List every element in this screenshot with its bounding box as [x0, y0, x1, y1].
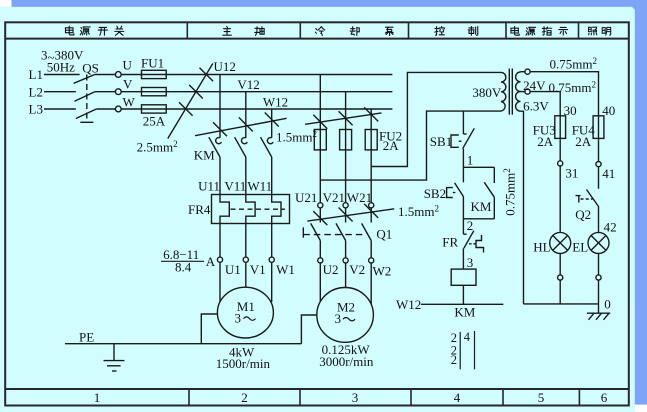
wire U21 to Q1 [319, 208, 321, 223]
wire 24V top to FU4 [530, 72, 598, 141]
FR4 linkage dashed [231, 208, 286, 210]
tick on L3 [179, 102, 193, 116]
fuse FU1 pole 2 [142, 88, 167, 96]
QS switch blade pole 2 [75, 92, 95, 102]
svg-text:0.75mm2: 0.75mm2 [549, 80, 596, 96]
tick on W12 [265, 113, 279, 127]
header bottom line [5, 38, 629, 40]
header Chinese labels drawn as stroke glyphs [65, 26, 610, 35]
svg-text:1: 1 [467, 153, 474, 168]
svg-text:31: 31 [565, 166, 578, 181]
svg-text:3: 3 [352, 390, 359, 405]
SB1 fixed hook [463, 133, 466, 135]
FR4 heater element 2 [246, 195, 255, 224]
terminal V circle [115, 89, 121, 95]
QS handle bar [80, 121, 93, 123]
svg-text:42: 42 [604, 220, 617, 235]
svg-text:KM: KM [194, 147, 215, 162]
wire coil to W12 [462, 285, 464, 304]
冷 [315, 27, 324, 36]
svg-text:2A: 2A [537, 134, 554, 149]
关 [115, 26, 124, 35]
transformer secondary winding [516, 72, 521, 111]
svg-text:QS: QS [82, 61, 99, 76]
terminal W2 circle [369, 258, 374, 263]
footer top line [5, 388, 629, 390]
svg-text:W: W [123, 95, 136, 110]
wire FR4 to W1 [271, 224, 273, 258]
cooling pump drop W21 [370, 109, 372, 150]
fuse FU1 pole 1 [142, 70, 167, 78]
SB2 blade [455, 183, 464, 197]
header dividers [187, 22, 579, 405]
KM pole 1 blade [209, 137, 220, 157]
tilde M2 [343, 318, 355, 321]
KM pole 3 blade [261, 137, 272, 157]
terminal U21 circle [318, 203, 323, 208]
KM aux stub [493, 167, 495, 183]
cable marker 1.5mm2 slash (pump motor) [307, 209, 394, 221]
明 [602, 27, 611, 35]
thermal relay FR4 box [212, 195, 290, 224]
wire count tally [451, 330, 471, 367]
wire L1 bus [166, 74, 392, 76]
motor M2 circle [317, 288, 374, 343]
svg-text:4: 4 [454, 390, 461, 405]
QS linkage dashed [86, 75, 88, 122]
wire L3 bus [166, 108, 392, 110]
开 [98, 27, 107, 35]
tick on U12 [213, 122, 227, 136]
cooling pump drop U21 [319, 75, 321, 150]
SB2 button cap [447, 188, 453, 198]
switch Q1 blade 2 [336, 223, 346, 240]
fuse FU1 pole 3 [142, 105, 167, 113]
transformer T primary winding [501, 72, 506, 111]
svg-text:PE: PE [79, 329, 94, 344]
terminal W21 circle [369, 203, 374, 208]
SB2 lower wire [462, 197, 464, 219]
secondary common rail [524, 303, 599, 305]
fuse FU4 [593, 116, 604, 139]
轴 [255, 27, 264, 36]
svg-text:V11: V11 [224, 178, 246, 193]
svg-text:0: 0 [604, 297, 611, 312]
svg-text:KM: KM [471, 199, 492, 214]
wire HL terminal to rail [559, 280, 561, 304]
svg-text:FR: FR [442, 234, 458, 249]
svg-text:30: 30 [564, 103, 577, 118]
tick on L2 [189, 85, 203, 99]
footer dividers [188, 389, 190, 406]
svg-text:U: U [123, 57, 133, 72]
tick U2 [313, 211, 327, 225]
contactor KM pole 3: fixed contact arc [267, 138, 273, 144]
wire tap to FU3 [530, 92, 560, 141]
svg-text:0.75mm2: 0.75mm2 [550, 56, 597, 72]
terminal U1 circle [217, 257, 222, 262]
泵 [385, 27, 393, 35]
PE bus [65, 343, 301, 345]
wire W21 to Q1 [370, 208, 372, 223]
Q1 linkage dashed [303, 234, 363, 236]
KM aux lower wire [493, 197, 495, 219]
主 [223, 26, 232, 35]
switch Q1 blade 1 [311, 223, 321, 240]
cable marker slash (pump feeders) [305, 113, 381, 124]
wire Q1 to W2 [370, 241, 372, 258]
wire L3 to terminal W [96, 108, 115, 110]
terminal V21 circle [343, 203, 348, 208]
blue top band [12, 0, 647, 7]
wire L2 incoming [44, 91, 76, 93]
transformer core [508, 69, 510, 115]
svg-text:3000r/min: 3000r/min [319, 354, 374, 369]
KM pole 2 blade [235, 137, 246, 157]
wire W12 [421, 303, 503, 305]
secondary top terminal wire [521, 71, 525, 73]
corner chamfer [632, 7, 635, 10]
svg-text:V1: V1 [250, 262, 266, 277]
wire L1 to terminal U [95, 74, 116, 76]
M1 PE tap [201, 314, 217, 344]
wire 41 to Q2 [598, 167, 600, 189]
电 (small) [511, 27, 519, 36]
svg-text:41: 41 [602, 166, 615, 181]
svg-text:L3: L3 [29, 102, 43, 117]
tick W2 [364, 204, 378, 218]
FR4 heater element 1 [220, 195, 229, 224]
wire V1 to motor [245, 262, 247, 287]
wire L2 bus [166, 91, 392, 93]
FR thermal actuator [476, 235, 484, 253]
terminal U circle [115, 72, 121, 78]
wire FU3 to terminal 31 [559, 140, 561, 161]
KM pole 3 out wire [271, 157, 273, 195]
svg-text:HL: HL [533, 240, 550, 255]
FR fixed hook [463, 233, 466, 235]
blue right band [635, 0, 647, 405]
svg-text:U12: U12 [214, 59, 236, 74]
svg-text:2: 2 [241, 390, 248, 405]
contactor KM pole 2: fixed contact arc [241, 138, 247, 144]
svg-text:4: 4 [464, 330, 471, 344]
svg-text:1.5mm2: 1.5mm2 [276, 129, 317, 145]
svg-text:W2: W2 [373, 264, 392, 279]
wire W21 below fuse [370, 150, 372, 203]
svg-text:U11: U11 [198, 178, 220, 193]
svg-text:40: 40 [602, 103, 615, 118]
svg-text:EL: EL [572, 240, 588, 255]
示 (small) [559, 27, 568, 35]
wire U1 to motor [219, 262, 221, 302]
tick on V12 [239, 117, 253, 131]
却 [350, 27, 359, 36]
tick pump W [364, 107, 378, 121]
KM pole 1 out wire [219, 157, 221, 195]
fuse FU3 [555, 116, 566, 139]
svg-text:U2: U2 [323, 262, 339, 277]
svg-text:W11: W11 [247, 178, 272, 193]
cable marker 2.5mm2 slash [168, 64, 213, 139]
SB1 blade [463, 128, 475, 148]
svg-text:1500r/min: 1500r/min [216, 356, 271, 371]
源 [80, 27, 90, 35]
fraction bar for 6.8-11/8.4 [161, 260, 204, 262]
wire Q1 to U2 [319, 241, 321, 258]
motor M1 circle [217, 287, 273, 338]
wire V21 to Q1 [345, 208, 347, 223]
wire U2 to motor M2 [319, 263, 321, 302]
secondary 24V tap wire [521, 91, 525, 93]
照 [589, 27, 597, 35]
wire W12 drop [271, 109, 273, 138]
wire HL to terminal [559, 254, 561, 275]
terminal 31 circle [558, 161, 563, 166]
wire L2 to terminal V [95, 91, 116, 93]
svg-text:0.75mm2: 0.75mm2 [502, 168, 518, 215]
EL bottom terminal circle [596, 275, 601, 280]
svg-text:1: 1 [94, 390, 101, 405]
控 [435, 27, 445, 36]
earth ground symbol [113, 344, 115, 361]
wire U21 to transformer primary bottom [320, 111, 501, 180]
wire EL to terminal [598, 254, 600, 275]
KM aux blade [484, 182, 494, 197]
Q1 handle bar [302, 227, 304, 237]
wire W2 to motor M2 [370, 263, 372, 304]
HL bottom terminal circle [558, 275, 563, 280]
Q2 actuator [576, 196, 581, 203]
FR blade [464, 231, 474, 249]
fuse FU2 pole 2 [340, 130, 352, 150]
svg-text:V2: V2 [349, 262, 365, 277]
secondary 6.3V bottom wire down [521, 111, 524, 304]
svg-text:W12: W12 [396, 297, 421, 312]
svg-text:2.5mm2: 2.5mm2 [137, 139, 178, 155]
lamp HL [550, 232, 571, 253]
svg-text:V21: V21 [323, 190, 345, 205]
svg-text:V12: V12 [237, 77, 259, 92]
wire W1 to motor [271, 262, 273, 302]
svg-text:6: 6 [601, 390, 608, 405]
fuse FU2 pole 3 [365, 130, 377, 150]
wire SB1 to split [462, 149, 464, 168]
terminal V2 circle [343, 258, 348, 263]
control branch: SB1 drop [462, 111, 464, 134]
svg-text:Q1: Q1 [376, 227, 392, 242]
wire U to FU1 [121, 74, 166, 76]
svg-text:KM: KM [454, 305, 475, 320]
svg-text:Q2: Q2 [575, 207, 591, 222]
svg-text:3: 3 [235, 310, 242, 325]
svg-text:380V: 380V [472, 85, 502, 100]
wire V to FU1 [121, 91, 166, 93]
svg-text:1.5mm2: 1.5mm2 [398, 204, 439, 220]
svg-text:6.3V: 6.3V [523, 99, 549, 114]
svg-text:L2: L2 [29, 84, 43, 99]
svg-text:SB2: SB2 [424, 186, 446, 201]
wire W to FU1 [121, 108, 166, 110]
split bottom bar [463, 218, 494, 220]
wire U12 drop [219, 75, 221, 138]
FR4 heater element 3 [272, 195, 281, 224]
wire V21 below fuse [345, 150, 347, 203]
svg-text:A: A [206, 254, 216, 269]
wire EL terminal to 0 [598, 280, 600, 313]
svg-text:SB1: SB1 [430, 134, 452, 149]
svg-text:50Hz: 50Hz [47, 59, 75, 74]
svg-text:W1: W1 [276, 262, 295, 277]
wire U21 below fuse [319, 150, 321, 203]
指 (small) [542, 27, 551, 35]
tilde M1 [244, 317, 256, 320]
svg-text:2A: 2A [383, 138, 400, 153]
secondary tap circle [525, 89, 530, 94]
SB2 stub [462, 167, 464, 182]
svg-text:5: 5 [538, 390, 545, 405]
svg-text:2: 2 [467, 218, 474, 233]
wire FR4 to U1 [219, 224, 221, 258]
wire FU4 to terminal 41 [598, 140, 600, 161]
svg-text:3: 3 [467, 255, 474, 270]
wire L3 incoming [44, 108, 76, 110]
svg-text:24V: 24V [523, 78, 546, 93]
svg-text:W12: W12 [263, 95, 288, 110]
制 [468, 27, 478, 36]
contactor KM pole 1: fixed contact arc [216, 138, 222, 144]
电 [65, 26, 73, 35]
tick V2 [339, 208, 353, 222]
wire Q1 to V2 [345, 241, 347, 258]
switch Q2 blade [587, 190, 599, 208]
split top bar [463, 166, 494, 168]
源 (small) [526, 27, 536, 35]
wire 31 to lamp HL [559, 166, 561, 232]
terminal V1 circle [243, 257, 248, 262]
terminal W1 circle [269, 257, 274, 262]
terminal U2 circle [318, 258, 323, 263]
svg-text:FU1: FU1 [141, 55, 164, 70]
wire FR to coil [462, 248, 464, 269]
svg-text:FR4: FR4 [188, 202, 211, 217]
wire V12 drop [245, 92, 247, 138]
tick pump V [339, 111, 353, 125]
svg-text:U1: U1 [225, 262, 241, 277]
tick pump U [313, 115, 327, 129]
wire W21 to transformer primary top [371, 72, 501, 166]
wire FR4 to V1 [245, 224, 247, 258]
svg-text:3: 3 [335, 311, 342, 326]
svg-text:U21: U21 [295, 190, 317, 205]
wire L1 incoming [44, 74, 80, 76]
fuse FU2 pole 1 [314, 130, 326, 150]
wire to FR contact [462, 219, 464, 234]
M2 PE tap [301, 315, 317, 344]
coil KM rect [451, 269, 476, 285]
svg-text:2A: 2A [575, 134, 592, 149]
svg-text:L1: L1 [29, 67, 43, 82]
wire V2 to motor M2 [345, 263, 347, 288]
svg-text:V: V [123, 77, 133, 92]
terminal 41 circle [596, 162, 601, 167]
footer numbers [94, 390, 608, 405]
svg-text:2: 2 [451, 353, 457, 367]
SB1 button cap [451, 135, 459, 147]
lamp EL [588, 232, 609, 253]
QS switch blade pole 3 [76, 109, 96, 119]
svg-text:25A: 25A [143, 114, 166, 129]
tick on L1 [200, 68, 214, 82]
chassis ground at 0 [587, 312, 610, 314]
KM pole 2 out wire [245, 157, 247, 195]
secondary top terminal circle [525, 69, 530, 74]
terminal W circle [115, 106, 121, 112]
wire Q2 to lamp EL [598, 207, 600, 232]
switch Q1 blade 3 [362, 223, 372, 240]
svg-text:W21: W21 [347, 190, 372, 205]
cooling pump drop V21 [345, 92, 347, 150]
QS switch blade pole 1 [74, 75, 95, 84]
cable marker 1.5mm2 slash (KM branch) [195, 118, 287, 135]
